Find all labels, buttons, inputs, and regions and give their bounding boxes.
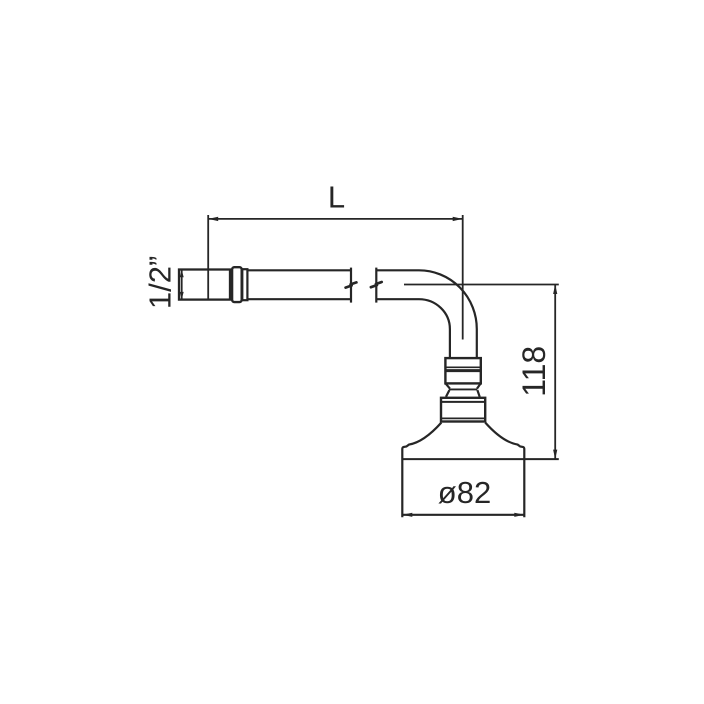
pipe bottom line (to break) [247,298,351,300]
svg-text:L: L [328,180,345,215]
break tick left [346,282,357,287]
bell flare left [402,423,441,518]
dimension 1/2: line [181,270,183,300]
arrow o82 left [402,513,412,517]
arrow 1/2 up [180,270,184,278]
arrow L left [208,217,218,221]
hourglass neck left [446,383,450,396]
dimension 118: line [554,285,556,460]
arrow 118 up [553,285,557,295]
dimension L: line [208,218,463,220]
svg-text:118: 118 [516,346,552,397]
nut body [445,358,480,383]
nut thin line [445,366,480,368]
dimension L: right extension line [462,215,464,340]
escutcheon collar [441,398,485,422]
break tick right [371,282,382,287]
dimension L: left extension line [207,215,209,300]
dimension 118: top extension line [404,284,559,286]
arrow o82 right [514,513,524,517]
nut thick band [445,369,480,372]
step ring [242,269,247,300]
bell rim line [402,458,559,460]
bell flare right [485,423,524,518]
break line right [375,268,377,303]
hourglass neck right [477,383,481,396]
arrow 118 down [553,450,557,460]
threaded nipple (pipe left end) [179,270,230,300]
arrow L right [453,217,463,221]
waist line [449,388,477,390]
break line left [350,268,352,303]
collar inner line top [441,401,485,403]
collar ring on pipe [232,267,242,302]
dimension o82: line [402,514,524,516]
arrow 1/2 down [180,292,184,300]
pipe top line (to break) [247,269,351,271]
pipe inner curve (elbow bottom) [376,299,450,358]
svg-text:1/2”: 1/2” [143,256,178,309]
collar inner line bottom [441,417,485,419]
svg-text:ø82: ø82 [438,475,491,510]
pipe outer curve (elbow top) [376,270,477,358]
